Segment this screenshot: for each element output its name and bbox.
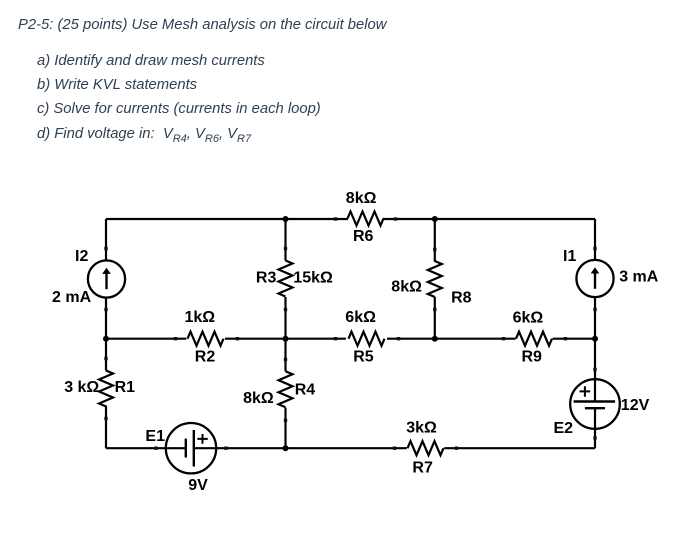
svg-text:R8: R8 bbox=[451, 290, 472, 307]
svg-text:R6: R6 bbox=[353, 228, 374, 245]
svg-text:12V: 12V bbox=[621, 397, 650, 414]
svg-text:R7: R7 bbox=[412, 459, 433, 476]
svg-text:9V: 9V bbox=[188, 477, 208, 494]
svg-text:3kΩ: 3kΩ bbox=[406, 419, 437, 436]
svg-text:2 mA: 2 mA bbox=[52, 289, 92, 306]
svg-text:15kΩ: 15kΩ bbox=[293, 270, 333, 287]
svg-text:8kΩ: 8kΩ bbox=[346, 190, 377, 207]
svg-text:6kΩ: 6kΩ bbox=[513, 310, 544, 327]
svg-text:E1: E1 bbox=[145, 428, 165, 445]
svg-text:R4: R4 bbox=[295, 381, 316, 398]
svg-text:R2: R2 bbox=[195, 349, 216, 366]
svg-text:3 mA: 3 mA bbox=[619, 268, 659, 285]
svg-text:R5: R5 bbox=[353, 349, 374, 366]
svg-text:I2: I2 bbox=[75, 248, 88, 265]
svg-text:1kΩ: 1kΩ bbox=[185, 309, 216, 326]
svg-text:R9: R9 bbox=[522, 349, 543, 366]
svg-text:8kΩ: 8kΩ bbox=[243, 390, 274, 407]
svg-text:8kΩ: 8kΩ bbox=[391, 278, 422, 295]
svg-text:3 kΩ: 3 kΩ bbox=[64, 379, 99, 396]
svg-text:E2: E2 bbox=[554, 420, 574, 437]
svg-text:R1: R1 bbox=[115, 379, 136, 396]
svg-text:I1: I1 bbox=[563, 248, 576, 265]
svg-text:R3: R3 bbox=[256, 270, 277, 287]
svg-text:6kΩ: 6kΩ bbox=[345, 309, 376, 326]
